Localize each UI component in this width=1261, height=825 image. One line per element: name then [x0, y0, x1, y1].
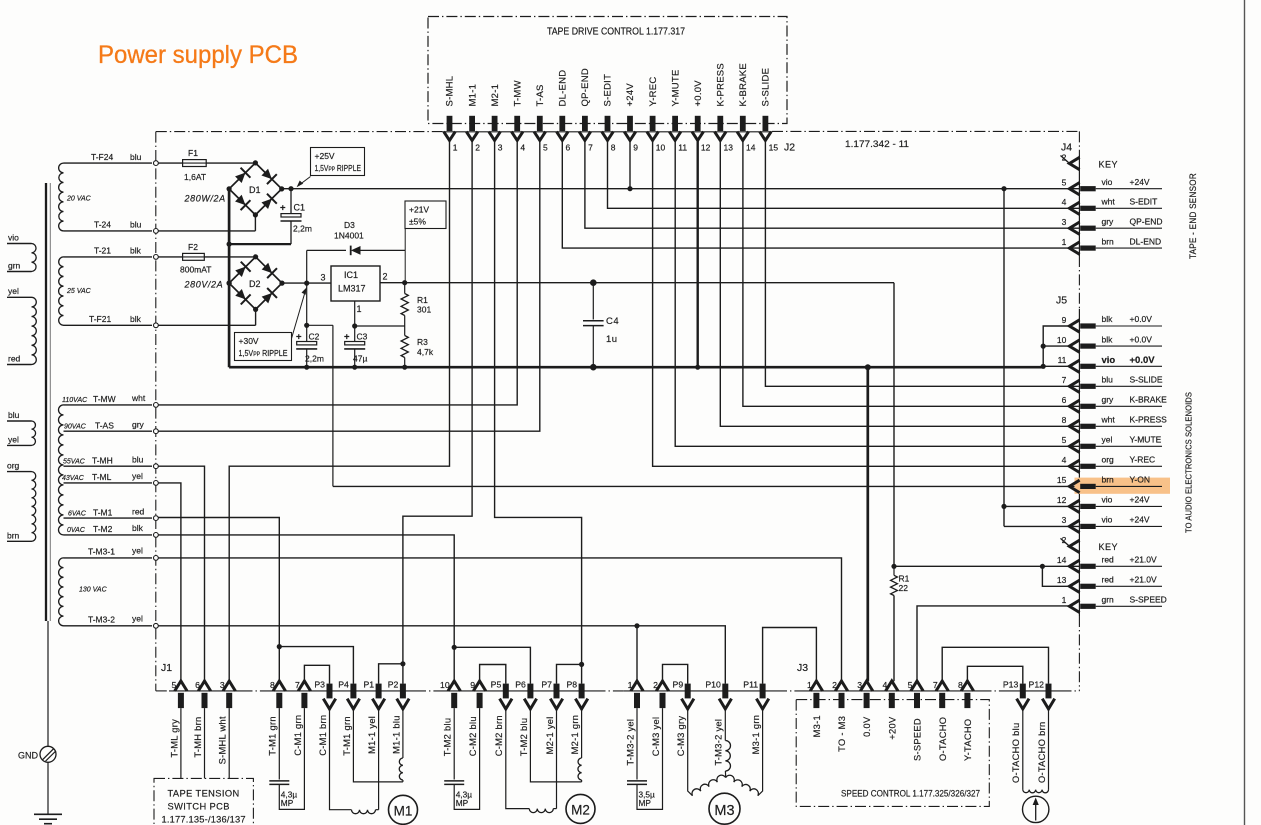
- svg-text:6: 6: [566, 143, 571, 153]
- wire P11 to M3 star: [758, 709, 763, 796]
- svg-text:TAPE DRIVE CONTROL 1.177.317: TAPE DRIVE CONTROL 1.177.317: [547, 27, 685, 38]
- connector J4 pin 4 wht S-EDIT: [1069, 202, 1079, 214]
- wire J3 pin 8 to P13: [967, 666, 1022, 683]
- svg-text:8: 8: [1062, 415, 1067, 425]
- svg-text:S-SLIDE: S-SLIDE: [1130, 375, 1163, 385]
- wire IC1 output +21V rail: [380, 282, 894, 284]
- resistor R1 301: [404, 283, 406, 294]
- junction +21V bracket J5 13: [1040, 564, 1045, 569]
- drawing frame border right: [1244, 0, 1246, 825]
- svg-text:D2: D2: [249, 279, 261, 289]
- svg-text:T-MH brn: T-MH brn: [193, 716, 203, 757]
- svg-text:2: 2: [475, 143, 480, 153]
- svg-text:T-F24: T-F24: [91, 152, 113, 162]
- wire P6 to M2 aux winding: [530, 709, 581, 782]
- svg-text:vio: vio: [1102, 495, 1113, 505]
- svg-text:P9: P9: [673, 680, 684, 690]
- svg-text:0VAC: 0VAC: [67, 527, 86, 534]
- svg-text:C2: C2: [309, 332, 320, 342]
- wire T-M3-2 to pin 1: [636, 626, 638, 681]
- svg-text:SPEED CONTROL 1.177.325/326/3: SPEED CONTROL 1.177.325/326/327: [841, 789, 980, 799]
- svg-text:10: 10: [656, 143, 666, 153]
- wire P12 to tacho: [1048, 709, 1050, 790]
- wire M1-1 bracket to P1: [379, 664, 403, 684]
- svg-text:130 VAC: 130 VAC: [79, 587, 108, 594]
- svg-text:T-AS: T-AS: [535, 84, 546, 106]
- svg-text:Y-TACHO: Y-TACHO: [963, 719, 973, 761]
- connector J5 pin 10 blk +0.0V: [1069, 340, 1079, 352]
- svg-text:D3: D3: [344, 220, 355, 230]
- connector pin 10 T-M2 blu: [448, 681, 460, 691]
- wire K-BRAKE J2 pin 14 to J5: [743, 140, 1080, 406]
- svg-text:QP-END: QP-END: [1130, 216, 1163, 226]
- tacho generator symbol: [1022, 796, 1048, 822]
- wire P11 to J3 pin 1: [763, 628, 817, 684]
- connector pin 7 C-M1 grn: [298, 681, 310, 691]
- svg-text:2,2m: 2,2m: [305, 354, 324, 364]
- resistor R1 22: [891, 575, 898, 595]
- svg-text:8: 8: [958, 680, 963, 690]
- svg-text:MP: MP: [639, 798, 652, 808]
- svg-text:org: org: [1102, 455, 1115, 465]
- wire J1 pin 6 to tape tension box: [204, 708, 206, 778]
- svg-text:M1-1 yel: M1-1 yel: [367, 716, 377, 754]
- connector J2 pin 5 T-AS: [537, 116, 543, 131]
- label box +30V ripple: [235, 333, 292, 361]
- svg-text:red: red: [1102, 555, 1115, 565]
- connector J3 pin 8 Y-TACHO: [961, 681, 973, 691]
- leader +30V to node: [292, 291, 306, 339]
- svg-text:wht: wht: [1101, 197, 1116, 207]
- connector J5 pin 15 brn Y-ON: [1069, 480, 1079, 492]
- svg-text:T-M3-2 yel: T-M3-2 yel: [625, 719, 635, 766]
- svg-text:gry: gry: [1102, 395, 1115, 405]
- svg-text:TAPE - END SENSOR: TAPE - END SENSOR: [1188, 173, 1198, 259]
- svg-text:3: 3: [1062, 515, 1067, 525]
- connector J3 body: [804, 690, 981, 692]
- svg-text:M1-1: M1-1: [467, 84, 478, 107]
- svg-text:12: 12: [1057, 495, 1067, 505]
- svg-text:13: 13: [1057, 575, 1067, 585]
- wire Y-ON row to J5: [333, 485, 1080, 487]
- svg-text:1,5VPP RIPPLE: 1,5VPP RIPPLE: [315, 163, 362, 173]
- junction +24V J5 pin 12: [1001, 504, 1006, 509]
- wire Y-ON branch: [307, 324, 333, 326]
- svg-text:280V/2A: 280V/2A: [184, 280, 224, 290]
- svg-text:3: 3: [220, 680, 225, 690]
- junction D2 minus: [227, 281, 232, 286]
- connector J5 pin 5 yel Y-MUTE: [1069, 440, 1079, 452]
- connector J2 pin 3 M2-1: [492, 116, 498, 131]
- connector pin 8 T-M1 grn: [273, 681, 285, 691]
- svg-text:8: 8: [611, 143, 616, 153]
- svg-text:11: 11: [678, 143, 687, 153]
- svg-text:C-M1 grn: C-M1 grn: [293, 715, 303, 756]
- svg-text:+24V: +24V: [1130, 495, 1150, 505]
- svg-text:vio: vio: [8, 233, 19, 243]
- svg-text:1: 1: [628, 680, 633, 690]
- wire S-SPEED J3 pin 5 to J5 pin 1: [917, 606, 1070, 681]
- svg-text:9: 9: [1062, 315, 1067, 325]
- svg-text:5: 5: [543, 143, 548, 153]
- svg-text:3: 3: [321, 273, 326, 283]
- svg-text:O-TACHO: O-TACHO: [938, 717, 948, 761]
- wire 0V J2 pin 12 to bus: [697, 140, 699, 367]
- svg-text:C1: C1: [294, 203, 306, 213]
- svg-text:C-M1 brn: C-M1 brn: [318, 715, 328, 756]
- board boundary bottom edge: [156, 690, 169, 692]
- svg-text:KEY: KEY: [1099, 160, 1119, 170]
- connector pin 9 C-M2 blu: [473, 681, 485, 691]
- svg-text:+0.0V: +0.0V: [693, 80, 704, 107]
- wire T-M3-1: [64, 557, 153, 559]
- connector J2 pin 2 M1-1: [469, 116, 475, 131]
- svg-text:F2: F2: [188, 242, 198, 252]
- svg-text:+21.0V: +21.0V: [1130, 555, 1158, 565]
- svg-text:T-M2 blu: T-M2 blu: [443, 718, 453, 757]
- svg-text:J2: J2: [784, 142, 795, 154]
- svg-text:K-PRESS: K-PRESS: [1130, 415, 1168, 425]
- wire IC1 adj: [354, 301, 356, 326]
- svg-text:vio: vio: [1102, 515, 1113, 525]
- svg-text:TO - M3: TO - M3: [837, 716, 847, 752]
- junction C4 to bus: [590, 364, 597, 371]
- connector pin P3 C-M1 brn: [327, 684, 333, 699]
- connector pin P13 O-TACHO blu: [1020, 684, 1026, 699]
- svg-text:1N4001: 1N4001: [334, 231, 364, 241]
- svg-text:43VAC: 43VAC: [62, 475, 85, 482]
- svg-text:M1-1 blu: M1-1 blu: [391, 715, 401, 754]
- node T-F24 terminal: [154, 161, 159, 166]
- svg-text:4: 4: [882, 680, 887, 690]
- connector J2 pin 14 K-BRAKE: [740, 116, 746, 131]
- svg-text:+30V: +30V: [239, 336, 259, 346]
- svg-text:yel: yel: [8, 435, 19, 445]
- wire Y-REC J2 pin 10 to J5: [653, 140, 1080, 466]
- wire 0V bus bracket J5: [1043, 326, 1069, 366]
- svg-text:vio: vio: [1102, 177, 1113, 187]
- svg-text:M3-1: M3-1: [812, 715, 822, 737]
- wire Y-MUTE J2 pin 11 to J5: [675, 140, 1079, 446]
- junction R3 to bus: [402, 365, 407, 370]
- svg-text:T-M2 blu: T-M2 blu: [519, 718, 529, 757]
- svg-text:T-24: T-24: [94, 220, 111, 230]
- svg-text:5: 5: [1062, 435, 1067, 445]
- svg-text:T-M3-2: T-M3-2: [88, 615, 115, 625]
- wire QP-END J2 pin 7 to J4: [585, 140, 1080, 228]
- svg-text:blk: blk: [1102, 334, 1114, 344]
- svg-text:T-M3-1: T-M3-1: [88, 547, 115, 557]
- connector pin 5 T-ML gry: [175, 681, 187, 691]
- svg-text:gry: gry: [1102, 216, 1115, 226]
- connector J5 pin 3 vio +24V: [1069, 520, 1079, 532]
- svg-text:7: 7: [933, 680, 938, 690]
- junction bracket pin11: [1041, 364, 1046, 369]
- svg-text:brn: brn: [1102, 475, 1115, 485]
- svg-text:yel: yel: [8, 286, 19, 296]
- svg-text:blk: blk: [132, 523, 144, 533]
- svg-text:P2: P2: [388, 680, 399, 690]
- svg-text:TAPE TENSION: TAPE TENSION: [168, 789, 240, 799]
- connector J5 body: [1078, 309, 1080, 616]
- svg-text:blu: blu: [130, 220, 142, 230]
- svg-text:T-M3-2 yel: T-M3-2 yel: [714, 719, 724, 766]
- secondary winding multi-tap: [58, 405, 63, 535]
- svg-text:1: 1: [357, 304, 362, 314]
- svg-text:brn: brn: [1102, 236, 1115, 246]
- connector pin P11 M3-1 grn: [760, 684, 766, 699]
- svg-text:1: 1: [1062, 237, 1067, 247]
- svg-text:15: 15: [769, 143, 779, 153]
- connector J2 pin 11 Y-MUTE: [672, 116, 678, 131]
- node T-F21 terminal: [154, 323, 159, 328]
- svg-text:S-SLIDE: S-SLIDE: [761, 68, 772, 107]
- bridge rectifier D2: [229, 257, 282, 310]
- svg-text:4: 4: [1062, 455, 1067, 465]
- inductor M1 main winding: [352, 810, 376, 814]
- svg-text:GND: GND: [18, 751, 39, 761]
- connector M2 group body: [441, 690, 595, 692]
- wire T-F24: [64, 162, 153, 164]
- svg-text:+0.0V: +0.0V: [1130, 355, 1156, 366]
- leader +21V to output: [404, 229, 406, 283]
- junction T-M1 bracket: [277, 644, 282, 649]
- svg-text:red: red: [8, 354, 21, 364]
- svg-text:Y-MUTE: Y-MUTE: [1130, 435, 1162, 445]
- connector pin P6 T-M2 blu: [527, 684, 533, 699]
- connector P13 P12 body: [1009, 690, 1061, 692]
- svg-text:1: 1: [807, 680, 812, 690]
- wire T-AS from J2 pin 5: [158, 140, 540, 431]
- wire S-EDIT J2 pin 8 to J4: [608, 140, 1080, 208]
- svg-text:S-EDIT: S-EDIT: [603, 74, 614, 107]
- connector J2 body line: [443, 131, 772, 133]
- diode D3 1N4001: [306, 250, 308, 283]
- svg-text:T-M1 grn: T-M1 grn: [268, 716, 278, 756]
- svg-text:LM317: LM317: [338, 284, 366, 294]
- wire T-M2 to pin 10: [158, 535, 454, 681]
- inductor M3 winding left: [692, 775, 726, 796]
- svg-text:S-SPEED: S-SPEED: [913, 718, 923, 761]
- label box +25V ripple: [311, 148, 365, 176]
- resistor R3 4,7k: [404, 326, 406, 336]
- svg-text:P11: P11: [743, 680, 758, 690]
- connector J5 pin 6 gry K-BRAKE: [1069, 400, 1079, 412]
- secondary winding 25VAC: [59, 257, 64, 325]
- label box +21V: [405, 201, 446, 229]
- svg-text:±5%: ±5%: [409, 217, 426, 227]
- board boundary left edge: [155, 132, 157, 691]
- connector J5 pin 13 red +21.0V: [1069, 580, 1079, 592]
- wire T-F24 to F1 to D1: [158, 162, 255, 164]
- junction +24V pin 9: [627, 186, 632, 191]
- wire T-M2 0VAC: [64, 534, 153, 536]
- svg-text:vio: vio: [1102, 355, 1116, 366]
- svg-text:blk: blk: [130, 246, 142, 256]
- svg-text:90VAC: 90VAC: [64, 424, 87, 431]
- connector pin 2 C-M3 yel: [656, 681, 668, 691]
- svg-text:Y-MUTE: Y-MUTE: [670, 69, 681, 106]
- svg-text:C-M2 brn: C-M2 brn: [494, 715, 504, 756]
- junction C1 return: [227, 242, 232, 247]
- svg-text:M2: M2: [571, 803, 590, 818]
- wire +24V J2 pin 9: [629, 140, 631, 189]
- board boundary top edge: [156, 131, 443, 133]
- connector pin P4 T-M1 grn: [350, 684, 356, 699]
- svg-text:SWITCH PCB: SWITCH PCB: [168, 802, 230, 812]
- connector J4 pin 1 brn DL-END: [1069, 242, 1079, 254]
- wire T-M1 to pin 8: [158, 518, 279, 682]
- svg-text:T-M1: T-M1: [93, 507, 113, 517]
- connector pin P10 T-M3-2 yel: [722, 684, 728, 699]
- connector J5 pin 2 KEY: [1069, 540, 1079, 552]
- capacitor C4: [590, 279, 597, 286]
- inductor tacho winding: [1023, 790, 1049, 793]
- svg-text:M2-1 yel: M2-1 yel: [545, 716, 555, 754]
- junction bracket pin10: [1041, 344, 1046, 349]
- svg-text:J1: J1: [161, 662, 172, 674]
- svg-text:C-M2 blu: C-M2 blu: [468, 716, 478, 756]
- svg-text:3: 3: [498, 143, 503, 153]
- svg-text:blu: blu: [130, 152, 142, 162]
- wire T-MW 110VAC: [64, 404, 153, 406]
- svg-text:K-PRESS: K-PRESS: [716, 63, 727, 106]
- svg-text:red: red: [1102, 575, 1115, 585]
- wire M2-1 bracket to P7: [557, 664, 582, 683]
- fuse F1: [183, 160, 207, 167]
- svg-text:14: 14: [746, 143, 756, 153]
- wire P7 to winding: [556, 709, 558, 809]
- junction M1-1 bracket: [400, 661, 405, 666]
- svg-text:KEY: KEY: [1099, 542, 1119, 552]
- bridge rectifier D1: [229, 163, 282, 215]
- svg-text:800mAT: 800mAT: [180, 265, 212, 275]
- connector J3 pin 1 M3-1: [810, 681, 822, 691]
- wire T-MH 55VAC: [64, 465, 153, 467]
- capacitor C2: [306, 283, 308, 341]
- svg-text:grn: grn: [1102, 595, 1115, 605]
- highlight Y-ON row: [1075, 478, 1171, 494]
- svg-text:+: +: [296, 332, 302, 343]
- wire T-F21: [64, 324, 153, 326]
- connector pin P2 M1-1 blu: [400, 684, 406, 699]
- wire T-M3-2: [64, 625, 153, 627]
- svg-text:5: 5: [172, 680, 177, 690]
- wire T-24: [64, 230, 153, 232]
- svg-text:F1: F1: [188, 148, 198, 158]
- svg-text:22: 22: [899, 583, 909, 593]
- svg-text:1u: 1u: [606, 334, 618, 345]
- svg-text:13: 13: [724, 143, 734, 153]
- svg-text:yel: yel: [132, 546, 143, 556]
- svg-text:+24V: +24V: [1130, 177, 1150, 187]
- svg-text:P8: P8: [566, 680, 577, 690]
- inductor M2 main winding: [529, 809, 553, 813]
- connector J3 pin 7 O-TACHO: [936, 681, 948, 691]
- connector J2 pin 13 K-PRESS: [717, 116, 723, 131]
- svg-text:S-SPEED: S-SPEED: [1130, 595, 1167, 605]
- svg-text:T-AS: T-AS: [95, 421, 114, 431]
- svg-text:9: 9: [633, 143, 638, 153]
- svg-text:S-MHL wht: S-MHL wht: [218, 716, 228, 764]
- inductor M2 aux winding: [581, 780, 583, 782]
- svg-text:O-TACHO brn: O-TACHO brn: [1037, 722, 1047, 784]
- svg-text:yel: yel: [1102, 435, 1113, 445]
- connector pin 1 T-M3-2 yel: [631, 681, 643, 691]
- svg-text:R3: R3: [417, 337, 428, 347]
- svg-text:10: 10: [1057, 335, 1067, 345]
- svg-text:S-EDIT: S-EDIT: [1130, 197, 1158, 207]
- connector J5 pin 4 org Y-REC: [1069, 460, 1079, 472]
- svg-text:T-MW: T-MW: [512, 80, 523, 106]
- wire T-24 to D1 bottom: [158, 230, 255, 232]
- motor M1: [389, 795, 418, 824]
- wire M2-1 from J2 pin 3: [495, 140, 582, 684]
- svg-text:110VAC: 110VAC: [62, 397, 88, 404]
- motor M2: [566, 794, 595, 823]
- svg-text:1,6AT: 1,6AT: [184, 172, 206, 182]
- node T-24 terminal: [154, 229, 159, 234]
- key stub J5 pin 2: [1061, 538, 1070, 546]
- svg-text:T-F21: T-F21: [89, 314, 111, 324]
- svg-text:+20V: +20V: [887, 716, 897, 740]
- svg-text:K-BRAKE: K-BRAKE: [738, 63, 749, 106]
- connector J5 pin 14 red +21.0V: [1069, 560, 1079, 572]
- svg-text:+: +: [280, 203, 286, 214]
- svg-text:+24V: +24V: [625, 83, 636, 107]
- wire T-M3-2 row: [158, 626, 725, 684]
- connector J2 pin 10 Y-REC: [650, 116, 656, 131]
- svg-text:4,7k: 4,7k: [417, 347, 434, 357]
- connector J5 pin 7 blu S-SLIDE: [1069, 380, 1079, 392]
- wire T-21: [64, 256, 153, 258]
- module box TAPE DRIVE CONTROL: [428, 17, 787, 124]
- junction +21V node R1: [402, 280, 407, 285]
- svg-text:M3-1 grn: M3-1 grn: [751, 715, 761, 755]
- connector J2 pin 12 +0.0V: [695, 116, 701, 131]
- junction 0V pin 12: [695, 365, 700, 370]
- svg-text:Power supply PCB: Power supply PCB: [98, 41, 298, 69]
- connector pin P12 O-TACHO brn: [1046, 684, 1052, 699]
- svg-text:+21.0V: +21.0V: [1130, 575, 1158, 585]
- junction C3 to bus: [352, 365, 357, 370]
- svg-text:MP: MP: [456, 798, 469, 808]
- svg-text:Y-REC: Y-REC: [1130, 455, 1156, 465]
- svg-text:Y-REC: Y-REC: [648, 77, 659, 107]
- junction adj node: [352, 323, 357, 328]
- svg-text:8: 8: [270, 680, 275, 690]
- svg-text:wht: wht: [1101, 415, 1116, 425]
- capacitor 3,5u MP motor M3: [636, 708, 638, 779]
- svg-text:20 VAC: 20 VAC: [66, 196, 92, 203]
- svg-text:47µ: 47µ: [353, 354, 367, 364]
- svg-text:2: 2: [653, 680, 658, 690]
- wire T-MW from J2 pin 4: [158, 140, 517, 405]
- wire T-F21 to D2 bottom: [158, 324, 255, 326]
- svg-text:+: +: [344, 332, 350, 343]
- svg-text:brn: brn: [7, 530, 20, 540]
- wire T-MH to J1 pin 6: [158, 466, 204, 681]
- wire R1 to J3 pin 4: [893, 596, 895, 682]
- svg-text:P7: P7: [541, 680, 552, 690]
- svg-text:C-M3 gry: C-M3 gry: [676, 716, 686, 757]
- svg-text:1: 1: [1062, 595, 1067, 605]
- svg-text:1.177.135-/136/137: 1.177.135-/136/137: [162, 815, 246, 825]
- wire bracket pin2 to P9: [663, 664, 688, 683]
- svg-text:blk: blk: [1102, 314, 1114, 324]
- wire bracket pin7 to P3: [304, 665, 329, 683]
- connector pin P9 C-M3 gry: [685, 684, 691, 699]
